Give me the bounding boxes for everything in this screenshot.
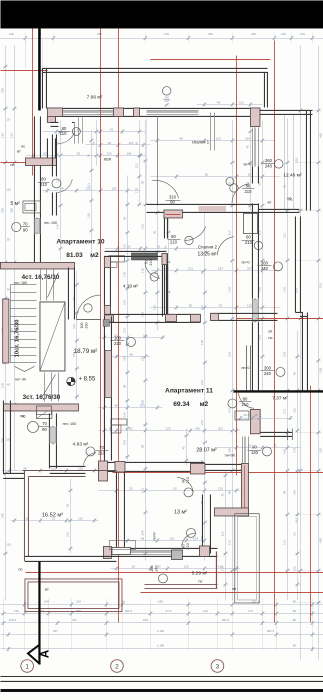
svg-text:80: 80 (243, 396, 248, 401)
svg-text:13.25 м²: 13.25 м² (197, 251, 216, 257)
extra interior horizontal dim lines (196, 103, 262, 105)
svg-text:48: 48 (179, 136, 183, 140)
svg-text:133: 133 (14, 609, 19, 613)
svg-text:151: 151 (122, 412, 126, 417)
svg-text:129: 129 (165, 426, 170, 430)
svg-text:92: 92 (157, 244, 161, 248)
east wall mid upper (251, 166, 253, 183)
svg-text:пс: пс (10, 162, 14, 167)
bottom border lines (0, 675, 323, 677)
svg-text:55: 55 (127, 244, 131, 248)
wardrobe bedroom1 (243, 213, 257, 233)
stairwell south wall (3, 404, 78, 411)
svg-text:204: 204 (140, 530, 144, 535)
svg-text:98: 98 (140, 444, 144, 448)
svg-text:207: 207 (247, 266, 252, 270)
stair down arrow (14, 366, 34, 371)
structural wall west horizontal (25, 158, 56, 166)
svg-text:70: 70 (42, 421, 47, 426)
svg-text:100: 100 (80, 322, 84, 328)
svg-text:101: 101 (169, 536, 174, 540)
svg-text:115: 115 (281, 32, 286, 36)
window north 1 (62, 109, 113, 111)
window tag 70/90 lower (27, 421, 38, 432)
svg-text:347: 347 (53, 629, 58, 633)
svg-text:пс: пс (20, 413, 24, 418)
svg-text:347: 347 (72, 618, 77, 622)
door 80/210 from hall (58, 131, 74, 144)
entry wall (67, 267, 69, 319)
stairwell west pink wall (3, 299, 9, 363)
door arc bedroom1 (152, 180, 179, 198)
svg-text:пс: пс (21, 143, 25, 148)
svg-text:203: 203 (218, 426, 223, 430)
extra interior vertical dim lines (59, 120, 61, 260)
pink wall east vertical (241, 463, 248, 515)
bottom flight treads (43, 372, 45, 401)
svg-text:92: 92 (248, 172, 252, 176)
walls (0, 68, 323, 612)
svg-text:140: 140 (44, 599, 49, 603)
axis horizontal 2 (0, 69, 47, 71)
svg-text:80: 80 (293, 609, 297, 613)
svg-text:92: 92 (77, 151, 81, 155)
svg-text:48: 48 (217, 100, 221, 104)
svg-text:98: 98 (227, 490, 231, 494)
svg-text:318: 318 (9, 328, 13, 333)
duct room lower right (235, 514, 259, 603)
svg-text:101: 101 (128, 141, 133, 145)
svg-text:346: 346 (208, 32, 213, 36)
svg-text:1.100: 1.100 (157, 629, 165, 633)
svg-text:90: 90 (252, 444, 257, 449)
svg-text:166: 166 (122, 272, 126, 277)
bedroom1 south wall (146, 203, 257, 205)
pier in bedroom1 south wall (198, 206, 226, 212)
axis horizontal 4 (236, 317, 323, 319)
svg-text:55: 55 (43, 151, 47, 155)
svg-text:7.66 м²: 7.66 м² (87, 94, 103, 100)
svg-text:219: 219 (257, 335, 261, 340)
section line A top (38, 28, 41, 110)
svg-text:112: 112 (220, 531, 224, 536)
svg-text:113: 113 (152, 270, 156, 275)
svg-text:325: 325 (122, 356, 126, 361)
terrace rail lines (283, 114, 285, 209)
pier se (199, 546, 209, 557)
svg-text:154: 154 (111, 186, 116, 190)
svg-text:166: 166 (257, 287, 261, 292)
svg-text:пс: пс (268, 335, 272, 340)
svg-text:118: 118 (164, 32, 169, 36)
svg-text:13 м²: 13 м² (174, 509, 187, 515)
room 13 east wall (201, 494, 203, 553)
stair landing hatch (36, 408, 52, 419)
svg-text:пн=0: пн=0 (243, 162, 251, 166)
pier north-west corner (47, 108, 62, 117)
svg-text:пс: пс (18, 566, 22, 571)
svg-text:3ст. 16,76/30: 3ст. 16,76/30 (23, 394, 61, 401)
stair treads (10, 283, 36, 285)
svg-text:112: 112 (55, 178, 59, 183)
bath 4.19 east wall (161, 253, 163, 316)
svg-text:240: 240 (264, 371, 272, 376)
svg-text:пн= 150: пн= 150 (44, 221, 57, 225)
apartment divider wall south of bath (104, 313, 200, 315)
svg-text:69.34: 69.34 (173, 401, 190, 408)
svg-text:60: 60 (152, 230, 156, 234)
svg-text:240: 240 (154, 565, 158, 571)
svg-text:115: 115 (300, 32, 305, 36)
svg-text:113: 113 (282, 233, 286, 238)
svg-text:302.3: 302.3 (222, 618, 230, 622)
west wall upper with door opening (46, 116, 48, 122)
wc east wall (51, 134, 53, 176)
svg-text:55: 55 (129, 486, 133, 490)
svg-text:92: 92 (143, 333, 147, 337)
svg-text:210: 210 (244, 189, 252, 194)
svg-text:70: 70 (23, 221, 28, 226)
svg-text:60: 60 (200, 270, 204, 274)
svg-text:хол: хол (104, 156, 112, 161)
axis vertical C (117, 28, 119, 622)
axis horizontal 7 (140, 591, 323, 593)
svg-text:240: 240 (261, 266, 269, 271)
top black bar (0, 0, 323, 28)
svg-text:219: 219 (282, 352, 286, 357)
svg-text:пн=0: пн=0 (241, 366, 249, 370)
svg-text:302.3: 302.3 (267, 629, 275, 633)
svg-text:166: 166 (195, 426, 200, 430)
svg-text:28.07 м²: 28.07 м² (196, 447, 217, 453)
hatch piece in wall (103, 320, 109, 327)
window tag 70/90 (12, 222, 21, 231)
pier in south wall (171, 550, 182, 560)
svg-text:113: 113 (72, 324, 76, 329)
svg-text:80: 80 (293, 618, 297, 622)
svg-text:129: 129 (247, 303, 252, 307)
svg-text:118: 118 (6, 187, 11, 191)
svg-text:346: 346 (251, 32, 256, 36)
svg-text:101: 101 (188, 266, 193, 270)
terrace 7.66 parapet top (42, 67, 267, 69)
svg-text:101: 101 (239, 100, 244, 104)
svg-text:120: 120 (0, 383, 4, 388)
sink 7.37 (235, 411, 249, 420)
svg-text:202: 202 (76, 609, 81, 613)
svg-text:151: 151 (200, 535, 204, 540)
svg-text:92: 92 (129, 426, 133, 430)
left margin dimension lines (4, 45, 6, 600)
top extension lines (24, 32, 26, 43)
svg-text:м2: м2 (200, 401, 209, 408)
svg-text:A: A (39, 650, 51, 658)
terrace 12.46 walls (259, 109, 312, 111)
svg-text:80: 80 (246, 234, 251, 239)
window south 260/240 (130, 549, 180, 551)
room 16.52 north wall (22, 469, 116, 471)
svg-text:48: 48 (141, 536, 145, 540)
svg-text:325: 325 (227, 448, 231, 453)
wall 28.07 south-east (204, 463, 241, 465)
svg-text:48: 48 (60, 186, 64, 190)
svg-text:пн=0: пн=0 (241, 260, 249, 264)
bedroom1 west partition (156, 116, 158, 205)
svg-text:Апартамент 11: Апартамент 11 (165, 387, 213, 394)
door 70/210 bath419 (145, 262, 160, 278)
terrace 7.66 parapet left (41, 68, 43, 109)
window 70/90 in west wall (33, 217, 35, 234)
svg-text:16.52 м²: 16.52 м² (42, 512, 63, 518)
svg-text:60: 60 (72, 296, 76, 300)
svg-text:260: 260 (150, 565, 154, 571)
svg-text:152: 152 (0, 133, 4, 138)
terrace 7.66 parapet right (263, 72, 265, 108)
svg-text:Апартамент 10: Апартамент 10 (56, 238, 105, 245)
axis vertical A (31, 28, 33, 175)
balcony 5.29 right wall (215, 551, 217, 588)
svg-text:40: 40 (7, 382, 11, 386)
svg-text:210: 210 (149, 259, 153, 265)
svg-text:272: 272 (227, 408, 231, 413)
east rooms: door 80/210 to 7.37 (228, 399, 237, 408)
svg-text:460: 460 (318, 133, 322, 138)
svg-text:166: 166 (140, 268, 144, 273)
svg-text:129: 129 (183, 564, 188, 568)
svg-text:151: 151 (282, 540, 286, 545)
svg-text:+ 8.55: + 8.55 (78, 376, 96, 382)
window east 2 hatched (251, 298, 253, 322)
svg-text:102.3: 102.3 (125, 609, 133, 613)
svg-text:45: 45 (245, 145, 249, 149)
svg-text:210: 210 (114, 341, 122, 346)
svg-text:92: 92 (273, 443, 277, 447)
svg-text:45: 45 (292, 371, 296, 375)
svg-text:48: 48 (129, 352, 133, 356)
bath 4.19 west wall (103, 256, 105, 316)
right margin dimension lines (299, 45, 301, 660)
tag circle (150, 277, 152, 279)
section line A bottom (38, 561, 40, 664)
svg-text:спалня 1: спалня 1 (192, 139, 210, 144)
svg-text:112: 112 (292, 408, 296, 413)
interior vertical dimension lines (75, 270, 77, 400)
svg-text:166: 166 (200, 340, 204, 345)
svg-text:пс: пс (198, 578, 202, 583)
svg-text:113: 113 (122, 244, 126, 249)
svg-text:Спалня 2: Спалня 2 (198, 244, 218, 249)
svg-text:80: 80 (293, 599, 297, 603)
svg-text:272: 272 (140, 356, 144, 361)
svg-text:129: 129 (106, 151, 111, 155)
entry door 100/210 ap10 (76, 318, 100, 320)
room 13 south wall (111, 547, 217, 549)
svg-text:4.83 м²: 4.83 м² (73, 441, 89, 447)
svg-text:113: 113 (86, 183, 90, 188)
west wall mid (46, 138, 48, 165)
svg-text:112: 112 (134, 163, 138, 168)
svg-text:98: 98 (200, 500, 204, 504)
svg-text:120.3: 120.3 (9, 618, 17, 622)
thick section line right (233, 390, 323, 392)
svg-text:м2: м2 (90, 252, 99, 259)
axis horizontal 6 (25, 571, 323, 573)
svg-text:129: 129 (218, 486, 223, 490)
svg-text:81.03: 81.03 (66, 252, 83, 259)
room 13 west wall (115, 471, 117, 547)
svg-text:1: 1 (25, 663, 29, 670)
svg-text:503: 503 (294, 158, 298, 163)
axis horizontal 3 (0, 161, 44, 163)
svg-text:118: 118 (9, 32, 14, 36)
svg-text:204: 204 (122, 440, 126, 445)
svg-text:129: 129 (78, 516, 83, 520)
svg-text:179: 179 (292, 448, 296, 453)
section arrow A (28, 645, 40, 664)
wall below 7.37 door (250, 409, 260, 433)
svg-text:92: 92 (7, 287, 11, 291)
svg-text:12.46 м²: 12.46 м² (283, 172, 302, 178)
svg-text:154: 154 (245, 136, 250, 140)
axis vertical B (99, 28, 101, 475)
svg-text:240: 240 (265, 163, 273, 168)
balcony 5.29 bottom wall (144, 583, 217, 585)
partition lines bedroom1 ne (209, 112, 211, 150)
svg-text:101: 101 (216, 136, 221, 140)
svg-text:360: 360 (97, 32, 102, 36)
svg-text:60: 60 (257, 182, 261, 186)
svg-text:202: 202 (76, 599, 81, 603)
east wall mid lower (251, 203, 253, 298)
svg-text:пн=0: пн=0 (152, 532, 156, 540)
svg-text:272: 272 (200, 420, 204, 425)
window marks end (286, 428, 288, 440)
svg-text:515: 515 (318, 283, 322, 288)
svg-text:260: 260 (261, 260, 269, 265)
svg-text:92: 92 (110, 127, 114, 131)
svg-text:1.180: 1.180 (157, 643, 165, 647)
svg-text:325: 325 (140, 400, 144, 405)
svg-text:вт: вт (45, 586, 49, 591)
svg-text:45: 45 (181, 446, 185, 450)
room 16.52 west wall (23, 471, 25, 562)
svg-text:43.5: 43.5 (244, 413, 250, 417)
svg-text:2: 2 (115, 663, 119, 670)
svg-text:60: 60 (122, 216, 126, 220)
svg-text:вт: вт (232, 586, 236, 591)
duct wall pair (245, 345, 247, 390)
svg-text:45: 45 (220, 493, 224, 497)
svg-text:вт: вт (17, 148, 21, 153)
window sill block (112, 547, 131, 554)
svg-text:160: 160 (143, 618, 148, 622)
svg-text:92: 92 (173, 486, 177, 490)
svg-text:166: 166 (126, 151, 131, 155)
svg-text:174: 174 (248, 609, 253, 613)
svg-text:60: 60 (140, 180, 144, 184)
svg-text:90: 90 (42, 427, 47, 432)
svg-text:49: 49 (41, 609, 45, 613)
svg-text:246: 246 (292, 490, 296, 495)
south wall of 4.83 (50, 465, 86, 467)
svg-text:210: 210 (170, 239, 178, 244)
kitchen counter ap11 (111, 419, 127, 425)
svg-text:461: 461 (294, 518, 298, 523)
svg-text:25: 25 (7, 117, 11, 121)
svg-text:55: 55 (7, 237, 11, 241)
svg-text:272: 272 (122, 328, 126, 333)
svg-text:363: 363 (318, 448, 322, 453)
svg-text:3: 3 (216, 663, 220, 670)
svg-text:154: 154 (218, 266, 223, 270)
svg-text:420: 420 (318, 538, 322, 543)
svg-text:5 м²: 5 м² (10, 201, 20, 207)
svg-text:245: 245 (0, 88, 4, 93)
axis horizontal 1 (150, 58, 270, 60)
fixture small above wall (109, 540, 135, 549)
bedroom2 west wall lower (163, 253, 165, 314)
svg-text:80: 80 (41, 176, 46, 181)
svg-text:112: 112 (65, 532, 69, 537)
svg-text:55: 55 (205, 172, 209, 176)
toilet 4.83 (36, 406, 51, 415)
svg-text:260: 260 (265, 158, 273, 163)
svg-text:вт: вт (268, 199, 272, 204)
svg-text:7.37 м²: 7.37 м² (272, 395, 288, 401)
svg-text:120: 120 (292, 566, 296, 571)
svg-text:219: 219 (227, 352, 231, 357)
svg-text:166: 166 (218, 564, 223, 568)
svg-text:53: 53 (292, 532, 296, 536)
svg-text:пн=90: пн=90 (225, 453, 236, 457)
wall horizontal y433 (260, 431, 292, 433)
svg-text:вт: вт (269, 328, 273, 333)
axis horizontal 5 (112, 471, 323, 473)
svg-text:10ст. 16,76/30: 10ст. 16,76/30 (14, 320, 20, 358)
svg-text:272: 272 (282, 409, 286, 414)
svg-text:пн= 150: пн= 150 (63, 422, 77, 426)
pier north right (250, 108, 259, 127)
svg-text:210: 210 (98, 450, 106, 455)
pier north mid a (113, 108, 123, 117)
svg-text:163: 163 (9, 133, 13, 138)
west wall of 4.83 duct (48, 413, 50, 468)
main north wall (47, 107, 259, 109)
svg-text:70: 70 (144, 260, 148, 264)
svg-text:219: 219 (200, 380, 204, 385)
svg-text:70: 70 (99, 445, 104, 450)
right extension lines (296, 109, 321, 111)
top dimension line (0, 37, 323, 39)
bottom dimension rows (2, 598, 4, 650)
bedroom2 west wall (163, 218, 165, 239)
axis bubble 2 (111, 660, 124, 673)
axis bubble 3 (211, 660, 224, 673)
svg-text:168: 168 (158, 599, 163, 603)
svg-text:300: 300 (9, 208, 13, 213)
svg-text:210: 210 (84, 322, 88, 328)
svg-text:48: 48 (108, 141, 112, 145)
axis vertical F (309, 385, 311, 622)
level mark +8.55 (67, 377, 75, 386)
svg-text:55: 55 (189, 303, 193, 307)
svg-text:80: 80 (171, 234, 176, 239)
svg-text:5.29 м²: 5.29 м² (192, 570, 208, 576)
svg-text:98: 98 (122, 384, 126, 388)
svg-text:48: 48 (114, 403, 118, 407)
svg-text:151: 151 (227, 540, 231, 545)
east wall lower (251, 322, 253, 390)
